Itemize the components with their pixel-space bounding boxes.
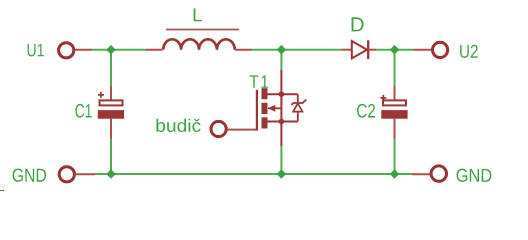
diode D triangle [352,41,367,58]
terminal budic circle [211,121,226,136]
capacitor C1 plus sign [98,92,104,98]
wire C1 bottom [110,139,112,174]
transistor T1 channel bar bottom [262,117,268,128]
label C2 [357,104,375,118]
terminal GND left circle [59,167,74,182]
body diode top lead [297,94,299,102]
wire C2 bottom [394,139,396,174]
terminal U1 pin stub [75,49,93,51]
transistor T1 gate lead [227,129,257,131]
body diode bottom lead [297,112,299,122]
label U1 [28,44,44,57]
label GND left [13,169,46,182]
diode D lead right [368,49,376,51]
pixel artifact red [0,190,1,192]
transistor T1 source junction dot [279,119,285,125]
wire T1 drain top [280,50,282,70]
terminal U2 pin stub [414,49,433,51]
transistor T1 bulk arrowhead [268,105,276,112]
junction bottom C2 [390,169,399,179]
diode D lead left [342,49,352,51]
terminal GND left pin stub [76,173,95,175]
wire bottom rail [95,173,412,175]
wire top rail right [376,49,414,51]
body diode triangle [293,103,302,111]
transistor T1 gate line [256,90,258,131]
junction top T1 [277,45,286,55]
label D [352,17,364,31]
capacitor C1 lead bottom [110,119,112,139]
diode D cathode bar [367,40,369,59]
transistor T1 drain junction dot [279,91,285,97]
wire top rail middle [252,49,342,51]
transistor T1 source connect [268,121,298,123]
junction bottom T1 [277,169,286,179]
capacitor C2 bottom plate [381,110,407,119]
transistor T1 bulk arrow line [268,107,281,109]
wire top rail left [92,49,146,51]
body diode zener cathode bar [291,100,306,105]
capacitor C2 top plate [383,100,406,105]
inductor L lead right [235,49,252,51]
junction top C2 [390,45,399,55]
capacitor C1 top plate [100,100,123,105]
label C1 [75,104,91,118]
capacitor C2 lead top [394,86,396,100]
inductor L coil [163,39,235,49]
transistor T1 drain-source line [280,70,282,146]
transistor T1 channel bar top [262,88,268,99]
label L [194,8,202,21]
terminal U1 circle [59,43,74,58]
label U2 [460,45,478,58]
capacitor C2 plus sign [380,95,386,101]
terminal GND right circle [431,166,446,181]
capacitor C1 lead top [110,86,112,100]
inductor L overline [166,29,239,31]
terminal GND right pin stub [412,173,430,175]
inductor L lead left [146,49,163,51]
pixel artifact green [1,190,2,192]
label budic [156,119,200,132]
junction top C1 [106,45,115,55]
transistor T1 channel bar middle [262,103,268,114]
capacitor C1 bottom plate [98,110,124,119]
label GND right [457,169,492,182]
pixel artifact blue [3,190,5,192]
label T1 [250,75,268,87]
capacitor C2 lead bottom [394,119,396,139]
transistor T1 drain connect [268,93,298,95]
junction bottom C1 [106,169,115,179]
wire T1 source bottom [280,146,282,174]
terminal U2 circle [433,42,448,57]
wire C2 top [394,50,396,87]
wire C1 top [110,50,112,87]
